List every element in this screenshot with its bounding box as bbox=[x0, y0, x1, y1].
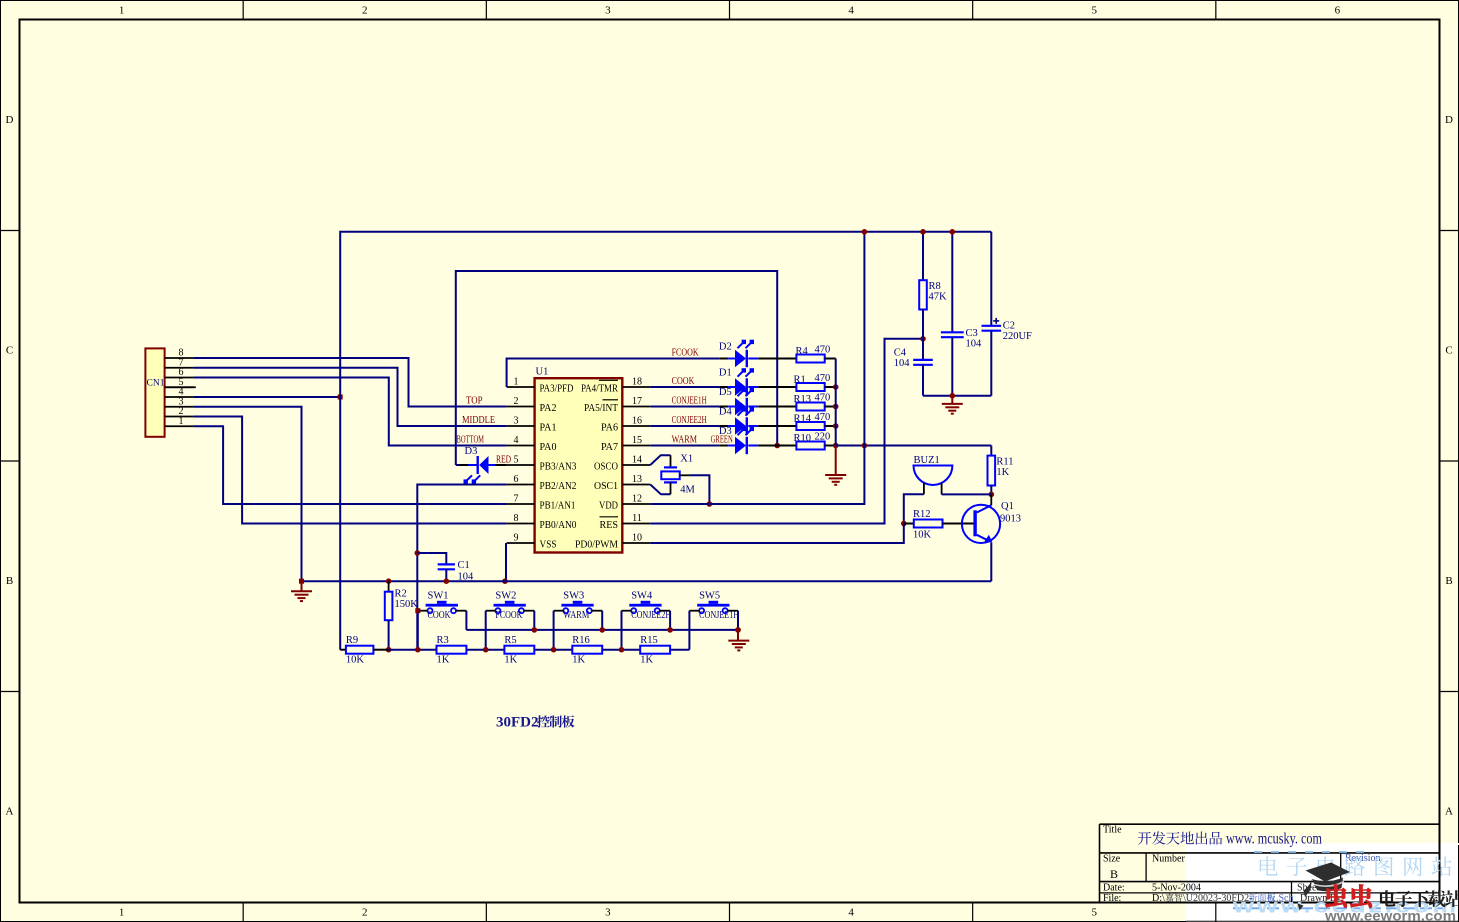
svg-text:12: 12 bbox=[632, 494, 642, 505]
svg-text:CONJEE1H: CONJEE1H bbox=[699, 610, 739, 621]
svg-text:Date:: Date: bbox=[1103, 883, 1125, 894]
svg-text:9: 9 bbox=[514, 533, 519, 544]
wire D1 to R1 bbox=[748, 386, 758, 388]
svg-text:www. mcusky. com: www. mcusky. com bbox=[1226, 831, 1322, 848]
svg-text:10K: 10K bbox=[346, 655, 365, 666]
resistor R13 bbox=[796, 403, 824, 411]
svg-text:18: 18 bbox=[632, 377, 642, 388]
svg-text:CONJEE1H: CONJEE1H bbox=[672, 396, 707, 407]
wire SW3 left drop bbox=[553, 611, 555, 650]
wire LED bus bbox=[835, 359, 837, 446]
svg-text:4: 4 bbox=[848, 907, 854, 919]
wire CN1.4 to VCC rail bbox=[194, 396, 341, 398]
resistor R15 bbox=[640, 646, 670, 654]
svg-text:CONJEE2H: CONJEE2H bbox=[631, 610, 671, 621]
resistor R1 bbox=[796, 383, 824, 391]
svg-text:TOP: TOP bbox=[466, 396, 483, 407]
wire SW4 right stub bbox=[660, 610, 670, 612]
node loop-warm junction bbox=[774, 443, 780, 449]
svg-text:R2: R2 bbox=[395, 589, 407, 600]
node bus R13 bbox=[833, 404, 839, 410]
svg-text:OSCO: OSCO bbox=[594, 462, 618, 473]
svg-text:C2: C2 bbox=[1003, 321, 1015, 332]
resistor R8 bbox=[919, 280, 927, 309]
node VSS rail junction bbox=[502, 578, 508, 584]
svg-text:5-Nov-2004: 5-Nov-2004 bbox=[1152, 883, 1201, 894]
svg-text:www.eeworm.com: www.eeworm.com bbox=[1324, 908, 1456, 922]
svg-text:1: 1 bbox=[119, 5, 125, 17]
node SW3 row junction bbox=[551, 647, 557, 653]
svg-text:4M: 4M bbox=[680, 485, 695, 496]
wire CN1.2 to U1.8 bbox=[194, 417, 507, 524]
wire CN1.3 to ground rail bbox=[194, 407, 302, 581]
svg-text:A: A bbox=[1445, 805, 1453, 817]
switch SW4 bbox=[629, 604, 661, 607]
diode D3 (RED) bbox=[477, 456, 479, 474]
node CN1.4 junction bbox=[338, 395, 343, 400]
wire key common row bbox=[466, 629, 738, 631]
wire key resistor row bbox=[389, 649, 690, 651]
ground reset rail bbox=[942, 403, 963, 405]
svg-text:R3: R3 bbox=[437, 635, 449, 646]
wire SW5 right stub bbox=[728, 610, 738, 612]
wire CN1.1 to U1.7 bbox=[194, 426, 507, 504]
wire C1 to rail bbox=[445, 569, 447, 581]
svg-text:470: 470 bbox=[815, 373, 831, 384]
title text bbox=[1138, 832, 1151, 845]
wire D4 to R14 bbox=[748, 425, 758, 427]
watermark black characters bbox=[1380, 890, 1396, 906]
wire SW1 left drop bbox=[417, 611, 419, 650]
svg-text:150K: 150K bbox=[395, 599, 419, 610]
svg-text:1: 1 bbox=[179, 416, 184, 427]
svg-text:R16: R16 bbox=[572, 635, 590, 646]
svg-text:10K: 10K bbox=[913, 530, 932, 541]
wire stem ground C3 bbox=[951, 396, 953, 404]
svg-text:Size: Size bbox=[1103, 854, 1121, 865]
svg-text:R11: R11 bbox=[996, 457, 1013, 468]
svg-text:1: 1 bbox=[514, 377, 519, 388]
node SW2 row junction bbox=[483, 647, 489, 653]
svg-text:R4: R4 bbox=[796, 346, 809, 357]
transistor Q1 bbox=[962, 505, 1000, 543]
wire U1.16 to D4 bbox=[650, 425, 720, 427]
svg-text:470: 470 bbox=[815, 393, 831, 404]
diode D4 bbox=[735, 417, 746, 434]
svg-text:470: 470 bbox=[815, 345, 831, 356]
svg-text:2: 2 bbox=[362, 5, 368, 17]
wire R1 to bus bbox=[825, 386, 836, 388]
svg-text:RES: RES bbox=[600, 520, 619, 531]
svg-text:3: 3 bbox=[605, 907, 611, 919]
node SW5 common junction bbox=[735, 627, 741, 633]
wire SW2 left stub bbox=[486, 610, 496, 612]
resistor R2 bbox=[385, 592, 393, 621]
node VDD rail junction bbox=[862, 229, 868, 235]
wire SW5 left drop to R15 bbox=[688, 611, 690, 650]
capacitor C1 bbox=[438, 563, 455, 565]
resistor R9 bbox=[346, 646, 374, 654]
wire SW2 right stub bbox=[524, 610, 534, 612]
svg-text:17: 17 bbox=[632, 396, 642, 407]
switch SW1 bbox=[426, 604, 458, 607]
node bus R1 bbox=[833, 384, 839, 390]
wire C1 branch bbox=[417, 553, 446, 564]
wire BUZ1 left terminal bbox=[923, 483, 925, 495]
wire VCC rail bbox=[340, 232, 991, 650]
svg-text:7: 7 bbox=[514, 494, 519, 505]
node SW1 contact junction bbox=[415, 608, 420, 613]
resistor R12 bbox=[914, 520, 943, 528]
svg-text:9013: 9013 bbox=[1000, 514, 1021, 525]
svg-text:16: 16 bbox=[632, 416, 642, 427]
wire WARM row to R11 bbox=[836, 445, 992, 447]
wire R4 to bus bbox=[825, 358, 836, 360]
node SW5 ground junction bbox=[735, 627, 741, 633]
svg-text:5: 5 bbox=[1092, 5, 1098, 17]
wire SW2 left drop bbox=[485, 611, 487, 650]
wire U1.15 to D3 bbox=[650, 445, 720, 447]
svg-text:11: 11 bbox=[632, 513, 642, 524]
svg-text:C: C bbox=[1445, 344, 1452, 356]
node base junction bbox=[901, 521, 907, 527]
svg-text:R10: R10 bbox=[794, 433, 812, 444]
svg-text:B: B bbox=[6, 575, 13, 587]
wire WARM to R11 bbox=[990, 446, 992, 456]
wire R9 to R2 node bbox=[373, 649, 388, 651]
node SW4 common junction bbox=[667, 627, 673, 633]
node bus R14 bbox=[833, 423, 839, 429]
title block frame bbox=[1186, 843, 1459, 922]
svg-text:B: B bbox=[1445, 575, 1452, 587]
svg-text:BOTTOM: BOTTOM bbox=[457, 435, 485, 446]
diode D1 bbox=[735, 378, 746, 395]
capacitor C4 bbox=[913, 359, 933, 361]
wire CN1.8 to U1.2 bbox=[194, 358, 507, 407]
node SW4 row junction bbox=[619, 647, 625, 653]
node collector junction bbox=[989, 492, 995, 498]
switch SW5 bbox=[697, 604, 729, 607]
wire U1.11 RES bbox=[650, 339, 923, 524]
resistor R16 bbox=[572, 646, 602, 654]
svg-text:D5: D5 bbox=[719, 387, 732, 398]
svg-text:1K: 1K bbox=[640, 655, 653, 666]
svg-text:220: 220 bbox=[815, 432, 831, 443]
svg-text:Number: Number bbox=[1152, 854, 1185, 865]
svg-text:C4: C4 bbox=[894, 348, 907, 359]
capacitor C2 (polarized) bbox=[982, 325, 1002, 327]
svg-text:B: B bbox=[1110, 867, 1118, 881]
resistor R4 bbox=[796, 355, 824, 363]
svg-text:8: 8 bbox=[514, 513, 519, 524]
switch SW3 bbox=[561, 604, 593, 607]
wire X1 to VDD row bbox=[680, 474, 690, 476]
wire stem ground rail-left bbox=[301, 581, 303, 591]
svg-text:47K: 47K bbox=[929, 292, 948, 303]
wire bus to ground bbox=[835, 446, 837, 476]
svg-text:COOK: COOK bbox=[672, 376, 695, 387]
node SW2 common junction bbox=[532, 627, 538, 633]
diode D5 bbox=[735, 398, 746, 415]
svg-text:PB0/AN0: PB0/AN0 bbox=[540, 520, 577, 531]
wire R13 to bus bbox=[825, 406, 836, 408]
svg-text:CN1: CN1 bbox=[147, 379, 165, 389]
wire U1.9 VSS to rail bbox=[505, 543, 507, 581]
svg-text:D:\: D:\ bbox=[1152, 893, 1165, 904]
wire U1.1 to FCOOK row bbox=[507, 359, 720, 388]
svg-text:1: 1 bbox=[119, 907, 125, 919]
resistor R11 bbox=[988, 456, 996, 486]
svg-text:CONJEE2H: CONJEE2H bbox=[672, 415, 707, 426]
ground rail left bbox=[291, 590, 312, 592]
svg-text:FCOOK: FCOOK bbox=[672, 348, 699, 359]
svg-text:WARM: WARM bbox=[672, 435, 698, 446]
wire U1.6 column bbox=[417, 485, 506, 650]
svg-text:D3: D3 bbox=[465, 446, 478, 457]
svg-text:PB2/AN2: PB2/AN2 bbox=[540, 481, 577, 492]
wire C2 to ground rail bbox=[990, 331, 992, 396]
wire PB3 loop bbox=[456, 271, 777, 465]
node R2 rail junction bbox=[386, 578, 392, 584]
resistor R14 bbox=[796, 422, 824, 430]
diode D2 bbox=[735, 350, 746, 367]
svg-text:A: A bbox=[6, 805, 14, 817]
wire C4 to ground rail bbox=[922, 365, 924, 396]
CN1 pin 5 stub bbox=[165, 386, 196, 388]
svg-text:R12: R12 bbox=[913, 509, 931, 520]
svg-text:PA1: PA1 bbox=[540, 423, 557, 434]
wire R10 to bus bbox=[825, 445, 836, 447]
svg-text:R8: R8 bbox=[929, 281, 941, 292]
svg-text:SW3: SW3 bbox=[563, 591, 584, 602]
wire SW1 left stub bbox=[418, 610, 428, 612]
svg-text:2: 2 bbox=[514, 396, 519, 407]
node SW1 row junction bbox=[415, 647, 421, 653]
wire R12 stub left bbox=[904, 523, 914, 525]
wire SW1 right stub bbox=[456, 610, 466, 612]
svg-text:File:: File: bbox=[1103, 893, 1121, 904]
svg-text:SW4: SW4 bbox=[631, 591, 653, 602]
wire Q1 collector bbox=[990, 494, 992, 505]
wire R9 left stub bbox=[340, 649, 346, 651]
svg-text:14: 14 bbox=[632, 455, 642, 466]
wire stem ground keys bbox=[737, 630, 739, 641]
svg-text:D1: D1 bbox=[719, 368, 732, 379]
svg-text:10: 10 bbox=[632, 533, 642, 544]
diode D3 bbox=[735, 437, 746, 454]
node VDD-warm junction bbox=[862, 443, 868, 449]
svg-text:COOK: COOK bbox=[428, 610, 451, 621]
node SW3 common junction bbox=[599, 627, 605, 633]
CN1 pins 1-8 bbox=[165, 357, 194, 359]
svg-text:SW5: SW5 bbox=[699, 591, 720, 602]
svg-text:D: D bbox=[1445, 114, 1453, 126]
wire U1.18 to D1 bbox=[650, 386, 720, 388]
watermark red characters bbox=[1325, 885, 1347, 908]
node rail start bbox=[299, 579, 304, 584]
svg-text:PA6: PA6 bbox=[601, 423, 618, 434]
svg-text:D2: D2 bbox=[719, 342, 732, 353]
svg-text:SW1: SW1 bbox=[428, 591, 449, 602]
node reset junction bbox=[920, 336, 926, 342]
connector CN1 bbox=[145, 348, 164, 436]
node X1-VDD junction bbox=[707, 501, 713, 507]
wire D5 to R13 bbox=[748, 406, 758, 408]
wire BUZ1 right terminal bbox=[941, 483, 943, 495]
wire rail to C2 bbox=[990, 232, 992, 326]
svg-text:104: 104 bbox=[458, 572, 475, 583]
node ground rail junction bbox=[950, 393, 956, 399]
svg-text:15: 15 bbox=[632, 435, 642, 446]
svg-text:C: C bbox=[6, 344, 13, 356]
svg-text:C3: C3 bbox=[966, 328, 978, 339]
wire SW4 left drop bbox=[621, 611, 623, 650]
wire SW5 left stub bbox=[689, 610, 699, 612]
wire R14 to bus bbox=[825, 425, 836, 427]
svg-text:PB1/AN1: PB1/AN1 bbox=[540, 501, 576, 512]
wire CN1.7 to U1.3 bbox=[194, 368, 507, 426]
capacitor C3 bbox=[941, 331, 964, 333]
svg-text:PA4/TMR: PA4/TMR bbox=[581, 384, 618, 395]
wire Q1 emitter to rail bbox=[990, 543, 992, 581]
svg-text:3: 3 bbox=[514, 416, 519, 427]
wire U1.17 to D5 bbox=[650, 406, 720, 408]
watermark dashes bbox=[1254, 851, 1372, 853]
wire rail to C3 bbox=[951, 232, 953, 332]
svg-text:PA3/PFD: PA3/PFD bbox=[540, 384, 574, 395]
wire D3 to R10 bbox=[748, 445, 758, 447]
node R2 row junction bbox=[386, 647, 392, 653]
svg-text:2: 2 bbox=[362, 907, 368, 919]
wire U1.10 to base node bbox=[650, 524, 904, 544]
svg-text:RED: RED bbox=[496, 455, 511, 466]
svg-text:OSC1: OSC1 bbox=[594, 481, 618, 492]
svg-text:R14: R14 bbox=[794, 414, 812, 425]
watermark cap icon bbox=[1298, 863, 1351, 911]
node C1 branch junction bbox=[415, 550, 421, 556]
wire SW3 left stub bbox=[554, 610, 564, 612]
ground keys bbox=[728, 640, 749, 642]
svg-text:4: 4 bbox=[514, 435, 519, 446]
svg-text:6: 6 bbox=[514, 474, 519, 485]
node bus R10 bbox=[833, 443, 839, 449]
svg-text:220UF: 220UF bbox=[1003, 331, 1032, 342]
svg-text:VSS: VSS bbox=[540, 540, 557, 551]
svg-text:Q1: Q1 bbox=[1001, 501, 1014, 512]
switch SW2 bbox=[494, 604, 526, 607]
svg-text:R15: R15 bbox=[640, 635, 658, 646]
wire SW3 right stub bbox=[592, 610, 602, 612]
svg-text:D4: D4 bbox=[719, 407, 733, 418]
watermark blue characters bbox=[1260, 856, 1278, 875]
svg-text:13: 13 bbox=[632, 474, 642, 485]
wire R11 to collector node bbox=[990, 486, 992, 495]
svg-text:PA7: PA7 bbox=[601, 442, 618, 453]
svg-text:4: 4 bbox=[848, 5, 854, 17]
svg-text:SW2: SW2 bbox=[495, 591, 516, 602]
crystal X1 bbox=[664, 466, 677, 468]
svg-text:104: 104 bbox=[966, 339, 983, 350]
wire R2 top stub bbox=[388, 581, 390, 592]
resistor R3 bbox=[437, 646, 467, 654]
wire rail to R8 bbox=[922, 232, 924, 280]
buzzer BUZ1 bbox=[914, 466, 953, 485]
wire R8 to C4 bbox=[922, 310, 924, 360]
svg-text:3: 3 bbox=[605, 5, 611, 17]
svg-text:5: 5 bbox=[1092, 907, 1098, 919]
IC U1 body bbox=[535, 378, 623, 552]
svg-text:1K: 1K bbox=[437, 655, 450, 666]
svg-text:R13: R13 bbox=[794, 394, 812, 405]
wire D3 anode bbox=[456, 464, 459, 466]
wire R12 to Q1 base bbox=[943, 523, 976, 525]
resistor R5 bbox=[504, 646, 534, 654]
svg-text:PB3/AN3: PB3/AN3 bbox=[540, 462, 577, 473]
svg-text:VDD: VDD bbox=[599, 501, 618, 512]
svg-text:D: D bbox=[6, 114, 14, 126]
wire U1.13 to X1 bbox=[650, 485, 670, 495]
U1 pins and names bbox=[507, 386, 535, 388]
resistor R10 bbox=[796, 442, 824, 450]
wire R2 bottom stub bbox=[388, 620, 390, 650]
wire ground rail bbox=[302, 580, 992, 582]
svg-text:Title: Title bbox=[1103, 825, 1122, 836]
svg-text:PA0: PA0 bbox=[540, 442, 557, 453]
ground LED bus bbox=[825, 474, 846, 476]
svg-text:PA5/INT: PA5/INT bbox=[584, 403, 619, 414]
svg-text:R1: R1 bbox=[794, 375, 806, 386]
wire reset ground rail bbox=[923, 395, 991, 397]
svg-text:1K: 1K bbox=[572, 655, 585, 666]
svg-text:GREEN: GREEN bbox=[711, 435, 733, 446]
wire C3 to ground rail bbox=[951, 337, 953, 396]
svg-text:PD0/PWM: PD0/PWM bbox=[575, 540, 619, 551]
svg-text:1K: 1K bbox=[996, 467, 1009, 478]
wire D2 to R4 bbox=[748, 358, 758, 360]
wire U1.12 VDD bbox=[650, 232, 864, 504]
svg-text:BUZ1: BUZ1 bbox=[914, 455, 940, 466]
svg-text:R5: R5 bbox=[504, 635, 516, 646]
svg-text:FCOOK: FCOOK bbox=[495, 610, 522, 621]
wire CN1.6 to U1.4 bbox=[194, 378, 507, 446]
wire U1.14 to X1 bbox=[650, 455, 670, 465]
svg-text:X1: X1 bbox=[680, 454, 693, 465]
node R8 rail junction bbox=[920, 229, 926, 235]
svg-text:MIDDLE: MIDDLE bbox=[462, 415, 495, 426]
svg-text:PA2: PA2 bbox=[540, 403, 557, 414]
node C1 rail junction bbox=[444, 578, 450, 584]
wire U1.5 to D3 bbox=[488, 464, 495, 466]
svg-text:R9: R9 bbox=[346, 635, 358, 646]
node C3 rail junction bbox=[950, 229, 956, 235]
svg-text:104: 104 bbox=[894, 358, 911, 369]
svg-text:5: 5 bbox=[514, 455, 519, 466]
svg-text:U1: U1 bbox=[536, 367, 549, 378]
svg-text:470: 470 bbox=[815, 412, 831, 423]
svg-text:C1: C1 bbox=[458, 560, 470, 571]
wire SW4 left stub bbox=[622, 610, 632, 612]
svg-text:1K: 1K bbox=[504, 655, 517, 666]
svg-text:30FD2: 30FD2 bbox=[496, 715, 539, 731]
svg-text:WARM: WARM bbox=[563, 610, 590, 621]
svg-text:6: 6 bbox=[1335, 5, 1341, 17]
